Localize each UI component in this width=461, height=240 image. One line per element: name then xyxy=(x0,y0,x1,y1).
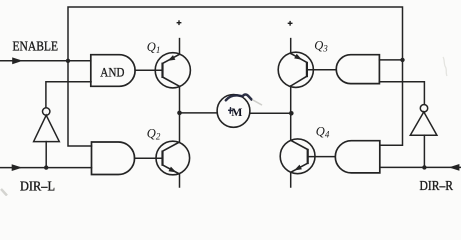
wire: right trunk down to G4 upper input xyxy=(380,60,403,145)
wire: motor node to motor left terminal xyxy=(180,112,218,114)
node: right trunk / G3 input dot xyxy=(400,58,404,62)
wire: right motor node down to Q4 collector xyxy=(290,113,292,140)
inverter U2 (right, DIR-R) xyxy=(410,105,437,136)
wire: ENABLE input line xyxy=(0,60,91,62)
wire: motor right terminal to right rail node xyxy=(250,112,291,114)
annotation: faint gray squiggle near right edge xyxy=(443,57,447,76)
arrow: Q4 emitter arrowhead (points out) xyxy=(294,165,302,171)
arrow: Q3 emitter arrowhead (points to base) xyxy=(294,54,302,60)
inverter U1 (left, DIR-L) xyxy=(34,108,60,142)
wire: DIR-L junction up to inverter-L input xyxy=(45,142,47,168)
node: DIR-L junction dot xyxy=(44,165,48,169)
svg-text:DIR–L: DIR–L xyxy=(20,179,55,194)
transistor Q1 (PNP upper left) xyxy=(155,53,190,88)
wire: left + supply stub to Q1 emitter xyxy=(179,39,181,55)
wire: right + supply stub to Q3 emitter xyxy=(290,39,292,54)
label: + right supply xyxy=(288,21,293,26)
transistor Q2 (NPN lower left) xyxy=(156,141,190,175)
wire: G3 upper input to right trunk xyxy=(379,59,402,61)
node: right motor node dot xyxy=(289,111,294,116)
svg-text:DIR–R: DIR–R xyxy=(420,178,454,193)
and-gate G3 (upper right, mirrored) xyxy=(336,55,379,84)
arrow: Q1 emitter arrowhead (points to base) xyxy=(168,55,176,61)
wire: left trunk down to lower AND gate xyxy=(68,61,92,146)
arrow: Q2 emitter arrowhead (points out) xyxy=(169,167,177,173)
wire: Q2 collector up to motor node xyxy=(179,113,181,142)
svg-text:AND: AND xyxy=(100,64,124,79)
and-gate G4 (lower right, mirrored) xyxy=(335,141,380,173)
wire: DIR-L input line xyxy=(0,167,92,169)
wire: G4 output to Q4 base xyxy=(308,156,336,158)
wire: G2 output to Q2 base xyxy=(135,157,163,159)
wire: G3 lower input from inverter-R output xyxy=(379,82,424,105)
wire: DIR-R junction up to inverter-R input xyxy=(423,135,425,167)
annotation: pen scribble over motor top xyxy=(226,94,252,100)
and-gate G2 (lower left) xyxy=(92,142,135,175)
node: DIR-R junction dot xyxy=(422,165,426,169)
svg-text:ENABLE: ENABLE xyxy=(13,39,59,54)
label: + left supply xyxy=(177,20,182,25)
node: left motor node dot xyxy=(177,111,182,116)
arrow: DIR-L input arrowhead xyxy=(12,164,23,171)
wire: G1 output to Q1 base xyxy=(135,69,162,71)
transistor Q3 (PNP upper right, mirrored) xyxy=(278,52,313,87)
node: ENABLE junction dot xyxy=(66,59,70,63)
wire: Q4 emitter to bottom edge xyxy=(290,172,292,187)
svg-text:M: M xyxy=(231,105,242,119)
arrow: DIR-R input arrowhead xyxy=(449,164,460,171)
wire: top supply rail xyxy=(68,7,403,61)
arrow: ENABLE input arrowhead xyxy=(12,57,23,64)
and-gate G1 (AND label) xyxy=(91,55,135,87)
wire: DIR-R input line xyxy=(380,166,461,168)
transistor Q4 (NPN lower right, mirrored) xyxy=(280,139,315,174)
wire: Q3 collector down to right motor node xyxy=(290,86,292,113)
wire: G3 output to Q3 base xyxy=(307,69,336,71)
annotation: gray smudge bottom-left corner xyxy=(1,189,7,196)
wire: inverter-L output to AND gate G1 lower input xyxy=(46,82,91,108)
wire: Q2 emitter to bottom edge xyxy=(179,174,181,187)
motor M xyxy=(217,95,250,128)
annotation: small ink plus left of M xyxy=(229,108,232,113)
annotation: faint gray streak right of motor xyxy=(253,100,262,105)
wire: Q1 collector down to motor node xyxy=(179,86,181,113)
